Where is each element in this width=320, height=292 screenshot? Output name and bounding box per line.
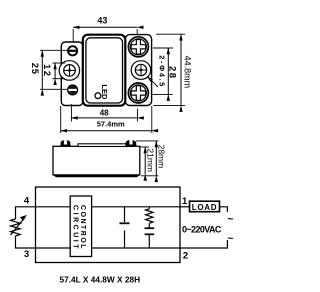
AC top stub [220, 207, 228, 212]
snubber capacitor C2 [148, 223, 150, 227]
svg-text:~: ~ [227, 213, 233, 225]
side base plate [53, 175, 140, 177]
control circuit box [70, 196, 91, 257]
wire top left [36, 206, 71, 208]
svg-text:57.4L X 44.8W X 28H: 57.4L X 44.8W X 28H [60, 275, 141, 285]
svg-text:28mm: 28mm [157, 145, 167, 169]
right mounting boss [131, 61, 151, 80]
svg-text:28: 28 [167, 66, 178, 80]
side screw dome left [61, 140, 71, 146]
input loop wires [16, 207, 36, 219]
screw S2 middle-left cross [64, 65, 76, 77]
dim 12 left [41, 63, 65, 79]
svg-text:LED: LED [100, 84, 109, 100]
screw S1 top-left slotted [68, 46, 77, 55]
inner panel [86, 38, 123, 103]
svg-text:48: 48 [100, 109, 109, 118]
svg-text:3: 3 [24, 249, 29, 260]
dim 44.8mm right [153, 34, 192, 105]
dim 57.4mm bottom [61, 106, 152, 133]
capacitor C1 branch [124, 207, 126, 222]
svg-text:43: 43 [97, 15, 107, 25]
SSR outline box [36, 187, 181, 263]
svg-text:~: ~ [227, 232, 233, 244]
svg-text:25: 25 [29, 63, 40, 75]
snubber resistor R1 zigzag [148, 207, 150, 209]
body [83, 35, 126, 106]
screw S3 bottom-left slotted dark [68, 85, 77, 94]
callout 2-phi4.5 [147, 55, 166, 87]
variable resistor arrow [11, 219, 25, 236]
svg-text:21mm: 21mm [146, 148, 156, 172]
svg-text:LOAD: LOAD [192, 203, 217, 212]
LED indicator circle [95, 93, 101, 99]
svg-text:12: 12 [41, 64, 52, 78]
dim 28mm side [136, 141, 167, 176]
dim 48 bottom [71, 104, 137, 122]
side body [53, 146, 140, 175]
left flange [61, 42, 83, 106]
svg-text:57.4mm: 57.4mm [97, 120, 125, 129]
svg-text:4: 4 [24, 195, 30, 206]
svg-text:1: 1 [182, 196, 188, 207]
wire top right [92, 206, 180, 208]
AC bottom stub [180, 240, 227, 248]
side screw dome right [126, 140, 137, 146]
wire to load [180, 206, 190, 208]
variable resistor VR zigzag [11, 219, 21, 236]
side raised strip [78, 144, 127, 147]
svg-text:0~220VAC: 0~220VAC [182, 224, 222, 234]
wire bottom left [36, 247, 71, 249]
dim 21mm side [141, 147, 156, 175]
wire bottom right [92, 247, 180, 249]
dim 43 top [73, 15, 137, 42]
right flange [125, 35, 151, 106]
screw S6 bottom-right combination [128, 83, 148, 103]
screw S4 top-right combination [128, 37, 148, 57]
svg-text:CONTROL: CONTROL [79, 205, 86, 249]
dim 28 right [152, 48, 177, 95]
dim 25 left [29, 50, 67, 89]
left mounting boss [59, 61, 79, 80]
LOAD box [190, 201, 220, 212]
screw S5 middle-right cross [135, 64, 146, 75]
svg-text:44.8mm: 44.8mm [182, 56, 192, 89]
svg-text:2: 2 [183, 251, 188, 262]
